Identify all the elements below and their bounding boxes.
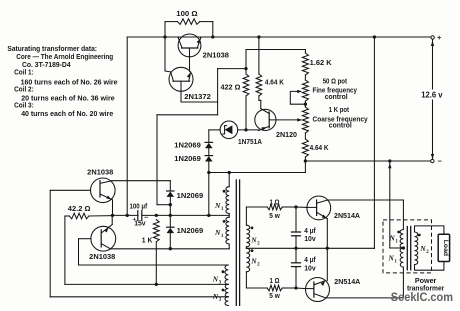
svg-text:4 μf: 4 μf bbox=[304, 257, 316, 264]
svg-text:5 w: 5 w bbox=[269, 213, 280, 220]
svg-text:N: N bbox=[214, 201, 221, 210]
svg-text:control: control bbox=[325, 94, 348, 101]
svg-text:100 μf: 100 μf bbox=[130, 203, 148, 210]
svg-text:2: 2 bbox=[426, 250, 429, 255]
svg-text:1: 1 bbox=[221, 207, 224, 212]
svg-text:N: N bbox=[250, 236, 257, 245]
svg-text:+: + bbox=[437, 33, 442, 42]
svg-text:4.64 K: 4.64 K bbox=[265, 80, 284, 87]
svg-text:N: N bbox=[214, 228, 221, 237]
svg-text:N: N bbox=[389, 234, 396, 243]
svg-text:1 Ω: 1 Ω bbox=[270, 278, 280, 285]
svg-text:N: N bbox=[250, 257, 257, 266]
svg-text:1N2069: 1N2069 bbox=[177, 193, 204, 200]
svg-text:15v: 15v bbox=[134, 221, 145, 228]
svg-text:1 Ω: 1 Ω bbox=[270, 199, 280, 206]
svg-text:1 K: 1 K bbox=[142, 238, 153, 245]
svg-text:2: 2 bbox=[257, 242, 260, 247]
svg-text:Power: Power bbox=[415, 278, 437, 285]
svg-text:4.64 K: 4.64 K bbox=[310, 145, 329, 152]
svg-text:N: N bbox=[212, 292, 219, 301]
svg-text:N: N bbox=[388, 254, 395, 263]
svg-text:Coil 2:: Coil 2: bbox=[14, 85, 34, 94]
svg-text:160 turns each of No. 26 wire: 160 turns each of No. 26 wire bbox=[21, 77, 118, 86]
svg-text:SeekIC.com: SeekIC.com bbox=[391, 290, 453, 304]
svg-text:5 w: 5 w bbox=[269, 293, 280, 300]
svg-text:20 turns each of No. 36 wire: 20 turns each of No. 36 wire bbox=[21, 93, 115, 102]
svg-text:1N751A: 1N751A bbox=[238, 139, 262, 146]
svg-text:−: − bbox=[438, 157, 443, 166]
svg-text:1: 1 bbox=[396, 240, 399, 245]
svg-text:12.6 v: 12.6 v bbox=[421, 91, 443, 100]
svg-text:42.2 Ω: 42.2 Ω bbox=[68, 206, 91, 213]
svg-text:1: 1 bbox=[395, 260, 398, 265]
svg-text:1N2069: 1N2069 bbox=[174, 156, 201, 163]
svg-text:1 K pot: 1 K pot bbox=[329, 107, 350, 114]
svg-text:2N120: 2N120 bbox=[276, 132, 297, 139]
svg-text:1.62 K: 1.62 K bbox=[310, 60, 332, 67]
svg-text:1N2069: 1N2069 bbox=[177, 228, 204, 235]
svg-text:2N1038: 2N1038 bbox=[89, 254, 115, 261]
svg-text:2: 2 bbox=[257, 263, 260, 268]
svg-text:4 μf: 4 μf bbox=[304, 228, 316, 235]
svg-text:10v: 10v bbox=[304, 265, 316, 272]
svg-text:2N1372: 2N1372 bbox=[184, 94, 211, 101]
svg-text:50 Ω pot: 50 Ω pot bbox=[323, 79, 348, 86]
svg-text:N: N bbox=[419, 244, 426, 253]
svg-text:10v: 10v bbox=[304, 236, 316, 243]
svg-text:422 Ω: 422 Ω bbox=[221, 84, 241, 91]
svg-text:Load: Load bbox=[442, 240, 449, 256]
svg-text:N: N bbox=[212, 275, 219, 284]
svg-text:2N1038: 2N1038 bbox=[87, 170, 113, 177]
svg-text:1N2069: 1N2069 bbox=[174, 143, 201, 150]
svg-text:2N1038: 2N1038 bbox=[203, 53, 229, 60]
svg-text:3: 3 bbox=[219, 298, 222, 303]
svg-text:2N514A: 2N514A bbox=[334, 213, 360, 220]
svg-text:1: 1 bbox=[221, 234, 224, 239]
svg-text:100 Ω: 100 Ω bbox=[176, 11, 198, 18]
svg-text:control: control bbox=[329, 123, 352, 130]
svg-text:Coil 1:: Coil 1: bbox=[14, 67, 34, 76]
svg-text:40 turns each of No. 20 wire: 40 turns each of No. 20 wire bbox=[21, 109, 113, 118]
svg-text:2N514A: 2N514A bbox=[334, 279, 360, 286]
